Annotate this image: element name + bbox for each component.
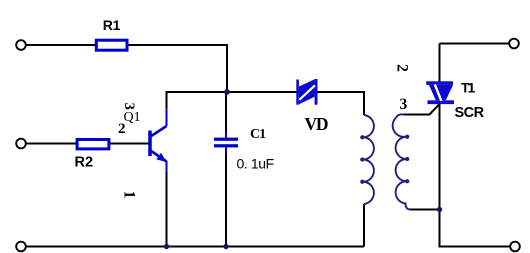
svg-text:SCR: SCR — [455, 105, 485, 121]
svg-text:Q1: Q1 — [124, 110, 141, 125]
svg-text:3: 3 — [400, 96, 408, 113]
svg-text:R2: R2 — [75, 155, 94, 171]
svg-text:1: 1 — [121, 191, 138, 199]
svg-text:2: 2 — [118, 121, 126, 137]
svg-text:3: 3 — [121, 103, 137, 110]
svg-text:0. 1uF: 0. 1uF — [237, 156, 274, 172]
svg-text:2: 2 — [393, 64, 410, 72]
svg-text:VD: VD — [305, 114, 328, 134]
svg-text:R1: R1 — [103, 17, 121, 33]
svg-text:C1: C1 — [250, 127, 266, 142]
